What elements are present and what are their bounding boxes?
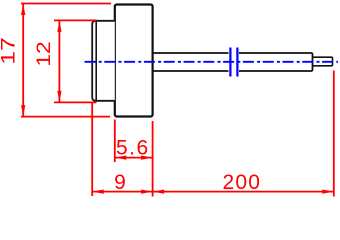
right extension line xyxy=(333,71,335,197)
dim 17 bottom extension line xyxy=(21,116,110,118)
cap crimp line xyxy=(95,21,97,101)
dim 17 arrow down xyxy=(21,105,25,117)
dim 17 arrow up xyxy=(21,4,25,16)
dim 17 top extension line xyxy=(21,3,111,5)
svg-text:200: 200 xyxy=(222,171,261,194)
svg-text:9: 9 xyxy=(114,171,126,194)
cable segment 1 bottom xyxy=(153,70,229,72)
body large cylinder xyxy=(115,5,153,117)
dim 5.6 dimension line xyxy=(115,157,153,159)
stripped conductor xyxy=(313,57,333,66)
svg-text:12: 12 xyxy=(34,41,55,66)
dim 200 arrow right xyxy=(322,190,334,194)
dim 200 arrow left xyxy=(153,190,165,194)
dim 9 200 dimension line xyxy=(92,191,334,193)
break mark 1 xyxy=(229,48,231,77)
cable segment 1 top xyxy=(153,52,229,54)
dim 17 dimension line xyxy=(22,4,24,117)
dim 12 arrow down xyxy=(57,91,61,103)
dim 9 left extension line xyxy=(91,103,93,196)
dim 9 arrow right xyxy=(141,190,153,194)
svg-text:17: 17 xyxy=(0,37,19,64)
small cylinder cap xyxy=(92,21,115,101)
shared middle extension line xyxy=(152,121,154,197)
dim 5.6 arrow left xyxy=(115,156,127,160)
dim 9 arrow left xyxy=(92,190,104,194)
dim 12 top extension line xyxy=(54,19,97,21)
dim 5.6 left extension line xyxy=(114,120,116,163)
centerline xyxy=(85,61,339,63)
break mark 2 xyxy=(236,48,238,77)
dim 12 arrow up xyxy=(57,20,61,32)
dim 5.6 arrow right xyxy=(141,156,153,160)
dim 12 dimension line xyxy=(58,20,60,102)
cable segment 2 with end xyxy=(239,53,313,71)
svg-text:5.6: 5.6 xyxy=(116,137,150,160)
dim 12 bottom extension line xyxy=(54,101,97,103)
